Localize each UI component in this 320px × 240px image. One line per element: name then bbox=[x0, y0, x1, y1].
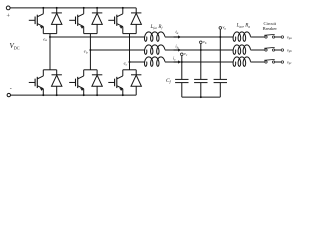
wire: node e_c down to lower cell bbox=[129, 62, 131, 70]
wire: phase a drop to node e_a bbox=[49, 34, 51, 37]
svg-text:+: + bbox=[6, 12, 10, 19]
bottom DC rail wire bbox=[10, 94, 136, 96]
svg-text:-: - bbox=[10, 87, 12, 93]
output terminal v_ga bbox=[281, 36, 283, 38]
transistor Q3 (IGBT, phase b) bbox=[69, 8, 84, 34]
terminal circle v_a bbox=[219, 27, 222, 30]
junction dots on bottom rail bbox=[42, 94, 44, 96]
diode D2 (antiparallel) bbox=[52, 70, 62, 95]
wire: inductor L_fc to node v_c bbox=[165, 61, 182, 63]
inductor L_gb bbox=[233, 45, 250, 54]
wire: inductor to breaker pole a bbox=[251, 36, 265, 38]
wire: v_a down to capacitor C_fa bbox=[219, 37, 221, 79]
svg-text:Lga, Rg: Lga, Rg bbox=[236, 24, 251, 29]
capacitor C_fa bbox=[214, 79, 227, 82]
wire: top cell b bottom connector bbox=[84, 33, 97, 35]
svg-text:Lfa, Rf: Lfa, Rf bbox=[150, 25, 164, 30]
svg-text:vgc: vgc bbox=[287, 59, 292, 65]
svg-text:va: va bbox=[223, 25, 227, 31]
wire: stub up to v_b terminal bbox=[200, 44, 202, 50]
wire: inductor to breaker pole b bbox=[251, 49, 265, 51]
wire: phase b drop to node e_b bbox=[89, 34, 91, 50]
wire: node e_a down to lower cell bbox=[49, 37, 51, 70]
transistor Q1 (IGBT, phase a) bbox=[29, 8, 44, 34]
wire: top cell a bottom connector bbox=[43, 33, 56, 35]
wire: breaker to output terminal gc bbox=[275, 61, 282, 63]
wire: inductor L_fa to node v_a bbox=[165, 36, 220, 38]
transistor Q2 (IGBT, phase a) bbox=[29, 70, 44, 95]
diode D5 (antiparallel) bbox=[131, 8, 141, 34]
diode D3 (antiparallel) bbox=[92, 8, 102, 34]
current arrow i_c bbox=[174, 61, 179, 63]
wire: bottom cell c top connector bbox=[123, 69, 136, 71]
diode D6 (antiparallel) bbox=[131, 70, 141, 95]
wire: e_b line to filter inductor bbox=[90, 49, 144, 51]
wire: capacitor common rail bbox=[182, 96, 221, 98]
node e_c junction dot bbox=[129, 61, 131, 63]
svg-text:vga: vga bbox=[287, 34, 292, 40]
wire: capacitor C_fc to common rail bbox=[181, 83, 183, 98]
wire: breaker to output terminal ga bbox=[275, 36, 282, 38]
node v_c junction dot bbox=[181, 61, 183, 63]
wire: node v_a to grid inductor bbox=[220, 36, 233, 38]
DC negative terminal bbox=[7, 93, 10, 96]
current arrow i_a bbox=[174, 36, 179, 38]
svg-text:Breaker: Breaker bbox=[263, 26, 278, 31]
wire: phase c drop to node e_c bbox=[129, 34, 131, 62]
wire: stub up to v_a terminal bbox=[219, 29, 221, 37]
wire: stub up to v_c terminal bbox=[181, 56, 183, 62]
wire: e_a line to filter inductor bbox=[50, 36, 145, 38]
diode D1 (antiparallel) bbox=[52, 8, 62, 34]
node e_a junction dot bbox=[49, 36, 51, 38]
transistor Q4 (IGBT, phase b) bbox=[69, 70, 84, 95]
wire: capacitor C_fb to common rail bbox=[200, 83, 202, 98]
junction dot on capacitor rail bbox=[200, 96, 202, 98]
node v_b junction dot bbox=[200, 49, 202, 51]
junction dots on top rail bbox=[42, 7, 44, 9]
inductor L_ga bbox=[233, 32, 250, 41]
inductor L_gc bbox=[233, 57, 250, 66]
inductor L_fb bbox=[145, 45, 165, 54]
terminal circle v_b bbox=[200, 41, 203, 44]
wire: capacitor C_fa to common rail bbox=[219, 83, 221, 98]
transistor Q6 (IGBT, phase c) bbox=[108, 70, 123, 95]
inductor L_fc bbox=[145, 57, 165, 66]
wire: breaker to output terminal gb bbox=[275, 49, 282, 51]
wire: v_b down to capacitor C_fb bbox=[200, 50, 202, 79]
svg-text:vgb: vgb bbox=[287, 47, 292, 53]
wire: top cell c bottom connector bbox=[123, 33, 136, 35]
wire: inductor to breaker pole c bbox=[251, 61, 265, 63]
diode D4 (antiparallel) bbox=[92, 70, 102, 95]
DC positive terminal bbox=[6, 6, 10, 10]
wire: bottom cell b top connector bbox=[84, 69, 97, 71]
wire: node e_b down to lower cell bbox=[89, 50, 91, 70]
wire: node v_c to grid inductor bbox=[182, 61, 233, 63]
inductor L_fa bbox=[145, 32, 165, 41]
node v_a junction dot bbox=[219, 36, 221, 38]
capacitor C_fb bbox=[194, 79, 207, 82]
svg-text:vb: vb bbox=[203, 39, 207, 45]
circuit breaker pole c bbox=[264, 59, 275, 63]
wire: node v_b to grid inductor bbox=[201, 49, 233, 51]
node e_b junction dot bbox=[89, 49, 91, 51]
capacitor C_fc bbox=[175, 79, 188, 82]
wire: v_c down to capacitor C_fc bbox=[181, 62, 183, 79]
transistor Q5 (IGBT, phase c) bbox=[108, 8, 123, 34]
circuit breaker pole b bbox=[264, 47, 275, 51]
wire: inductor L_fb to node v_b bbox=[165, 49, 201, 51]
current arrow i_b bbox=[174, 49, 179, 51]
svg-text:Circuit: Circuit bbox=[264, 21, 277, 26]
output terminal v_gc bbox=[281, 61, 283, 63]
wire: bottom cell a top connector bbox=[43, 69, 56, 71]
wire: e_c line to filter inductor bbox=[130, 61, 145, 63]
output terminal v_gb bbox=[281, 49, 283, 51]
terminal circle v_c bbox=[181, 53, 184, 56]
circuit breaker pole a bbox=[264, 34, 275, 38]
top DC rail wire bbox=[10, 7, 136, 9]
